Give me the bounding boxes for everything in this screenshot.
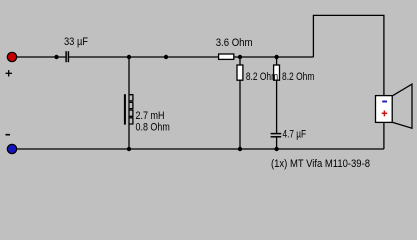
svg-text:8.2 Ohm: 8.2 Ohm <box>246 71 278 83</box>
svg-text:3.6 Ohm: 3.6 Ohm <box>216 37 253 49</box>
svg-text:(1x) MT Vifa M110-39-8: (1x) MT Vifa M110-39-8 <box>271 158 370 170</box>
svg-text:4.7 µF: 4.7 µF <box>283 129 307 141</box>
svg-text:0.8 Ohm: 0.8 Ohm <box>136 121 170 133</box>
svg-text:33 µF: 33 µF <box>64 36 88 48</box>
svg-text:2.7 mH: 2.7 mH <box>136 110 165 122</box>
svg-text:8.2 Ohm: 8.2 Ohm <box>282 71 314 83</box>
